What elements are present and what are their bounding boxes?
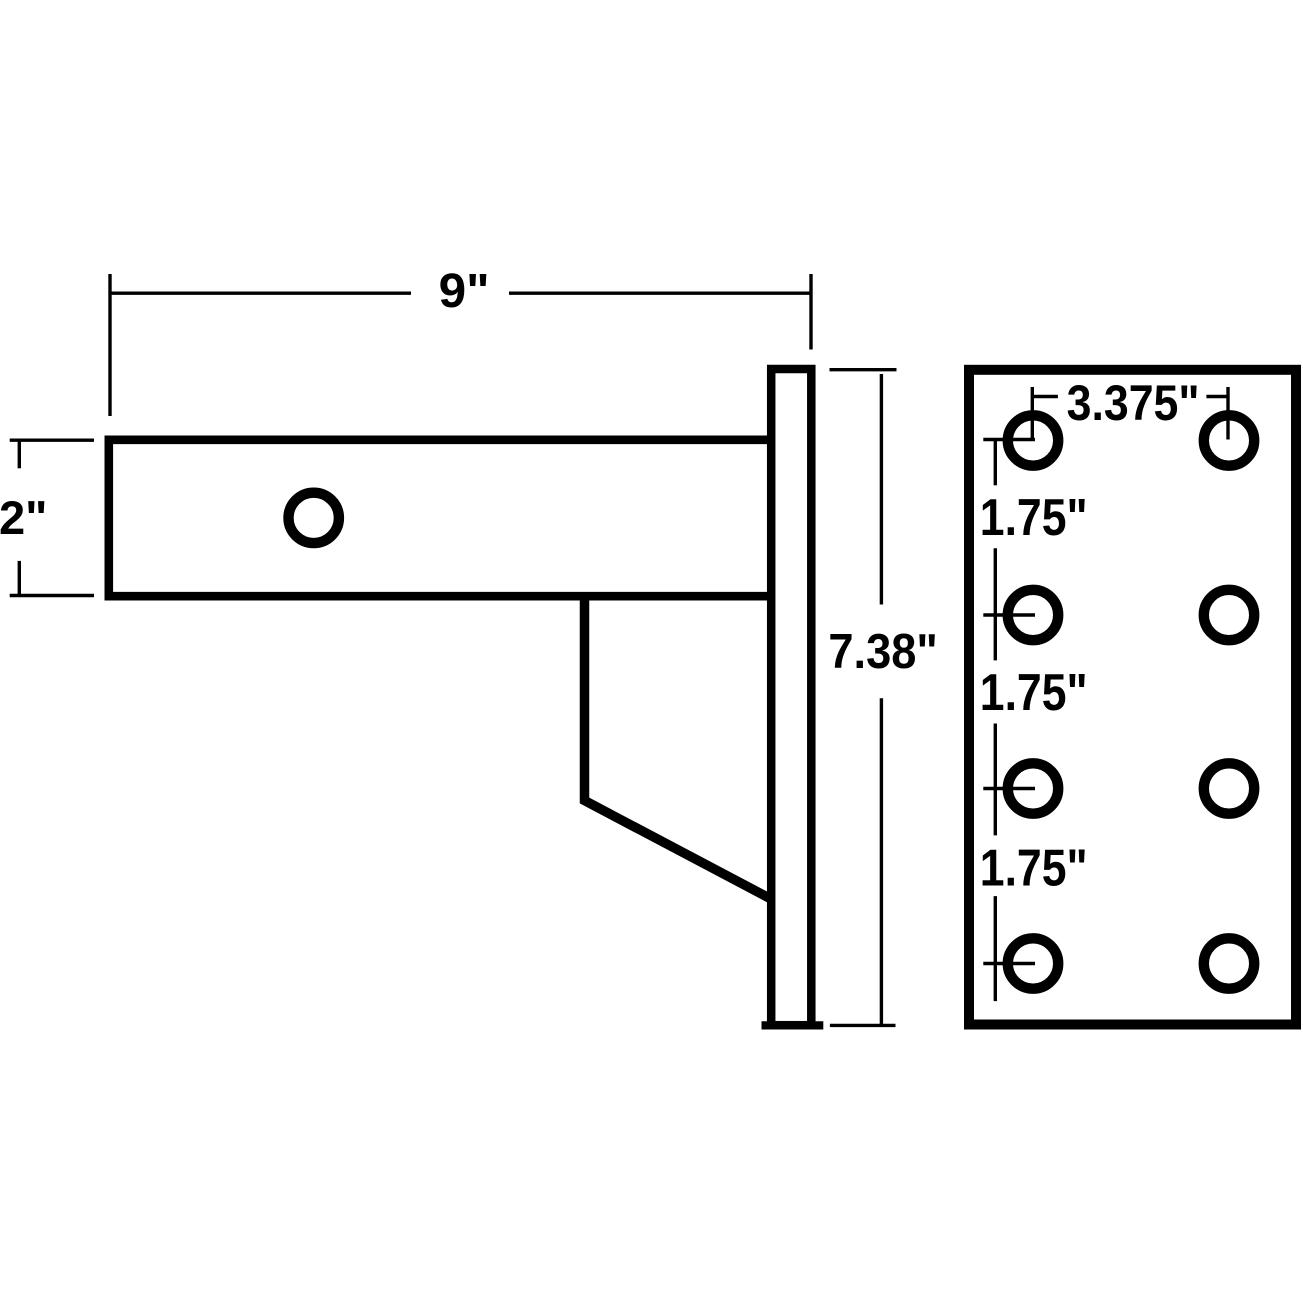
svg-text:7.38": 7.38" <box>828 625 937 679</box>
svg-text:2": 2" <box>0 491 48 544</box>
svg-text:1.75": 1.75" <box>980 664 1088 722</box>
svg-text:1.75": 1.75" <box>980 839 1088 897</box>
svg-text:9": 9" <box>439 265 490 318</box>
svg-text:1.75": 1.75" <box>980 489 1088 547</box>
svg-text:3.375": 3.375" <box>1067 375 1200 431</box>
